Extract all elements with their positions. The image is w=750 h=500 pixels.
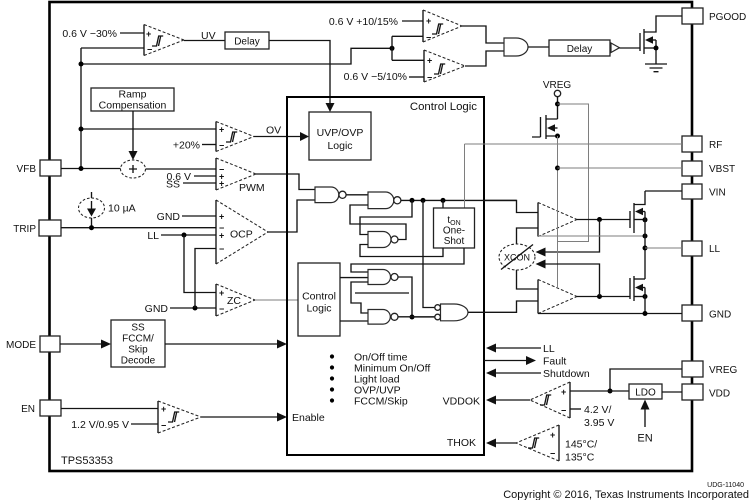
gate AND G [435, 304, 468, 321]
svg-text:Enable: Enable [292, 412, 325, 424]
label 1.2V/0.95V [71, 419, 158, 431]
svg-text:LDO: LDO [635, 388, 656, 399]
comparator OCP [216, 200, 268, 264]
wire EN pin to EN comparator [61, 408, 158, 410]
node dot LL pin [643, 246, 648, 251]
svg-text:UVP/OVP: UVP/OVP [317, 127, 364, 139]
arrow EN into LDO [637, 400, 652, 445]
pin TRIP [13, 220, 61, 236]
svg-text:FCCM/Skip: FCCM/Skip [354, 396, 408, 408]
label UDG-11040 [707, 482, 744, 489]
label 145C/135C [565, 439, 597, 464]
wire delay1 to UVP/OVP logic [269, 41, 335, 113]
svg-text:Skip: Skip [128, 345, 148, 356]
svg-text:135°C: 135°C [565, 452, 595, 464]
transistor HS fet Q3 [630, 191, 648, 233]
pin VREG [682, 361, 738, 377]
wire inner box to nandF [340, 320, 368, 322]
wire OVP comp to AND [462, 26, 504, 43]
comparator OV [216, 122, 254, 152]
wire 0.6V-30% to UV plus [120, 32, 144, 34]
comparator UV [144, 25, 184, 56]
node junction x81 y64 [79, 62, 84, 67]
wire inner box to nandD [340, 277, 368, 279]
wire TRIP to OCP minus [61, 225, 216, 230]
node dot VBST [555, 166, 560, 171]
svg-text:+: + [426, 16, 431, 26]
wire LDO to VDD pin [662, 391, 682, 393]
wire F out to AND G [398, 316, 435, 318]
wire UVP comp to AND [465, 51, 504, 66]
label OCP [230, 229, 253, 241]
wire GND rail [538, 311, 682, 316]
wire ramp to summing node [129, 111, 138, 160]
block control logic inner [298, 263, 340, 336]
wire HS out to XCON arrow [536, 220, 600, 257]
wire summing node to PWM minus [146, 168, 217, 170]
wire to UVP comp plus [392, 59, 424, 61]
delay block D2 [549, 40, 610, 56]
label LL left [147, 230, 216, 242]
wire VBST to pin [558, 167, 683, 169]
wire LL to ZC plus [184, 235, 216, 293]
wire RF into tON [464, 144, 466, 208]
pin GND [682, 305, 731, 321]
svg-text:Delay: Delay [234, 37, 260, 48]
wire VBST rail overlay [557, 202, 559, 288]
svg-text:Delay: Delay [567, 44, 593, 55]
svg-text:THOK: THOK [447, 437, 476, 449]
pin VFB [17, 160, 61, 176]
pin VIN [682, 184, 726, 199]
svg-text:Logic: Logic [306, 303, 331, 315]
gate NAND A [315, 187, 346, 203]
svg-text:Shot: Shot [444, 236, 465, 247]
wire LS out to XCON arrow [536, 260, 600, 297]
svg-text:−: − [147, 45, 152, 55]
svg-text:PGOOD: PGOOD [709, 12, 746, 23]
svg-text:VDDOK: VDDOK [443, 396, 480, 408]
svg-text:+: + [219, 179, 224, 189]
wire buffer to PGOOD fet gate [620, 47, 641, 49]
svg-text:−: − [219, 141, 224, 151]
pin VDD [682, 384, 730, 400]
svg-text:−: − [219, 244, 224, 254]
current source 10uA [79, 192, 136, 228]
svg-text:VBST: VBST [709, 164, 735, 175]
wire EN comp to control logic enable [201, 413, 287, 422]
block SS FCCM skip decode [111, 320, 165, 367]
pin PGOOD [682, 8, 746, 24]
label 0.6V / SS [166, 171, 216, 191]
label TPS53353 [61, 455, 113, 467]
summing node [121, 160, 146, 178]
svg-text:LL: LL [709, 244, 721, 255]
comparator PWM [216, 158, 256, 190]
label LL arrow [486, 343, 555, 355]
node dot 412 [410, 198, 415, 203]
comparator VDDOK [530, 382, 570, 418]
pin RF [682, 136, 722, 152]
driver LS [538, 280, 577, 314]
label UV [201, 30, 216, 42]
svg-text:+: + [427, 56, 432, 66]
svg-text:VDD: VDD [709, 389, 730, 400]
wire OV to UVP/OVP logic [254, 132, 309, 141]
svg-text:+: + [161, 404, 166, 414]
node dot LDO input [608, 389, 613, 394]
label ZC [227, 295, 241, 307]
wire ZC out to inner control logic [255, 299, 298, 301]
gate NAND B [368, 192, 401, 209]
svg-text:−: − [427, 73, 432, 83]
node VFB bus x81 [80, 48, 82, 169]
svg-text:LL: LL [147, 230, 159, 242]
wire MODE to decode block [60, 340, 111, 349]
wire UV minus feedback [81, 47, 144, 49]
driver HS [538, 203, 577, 237]
svg-text:MODE: MODE [6, 340, 36, 351]
svg-text:−: − [561, 406, 566, 416]
wire node to LDO [610, 390, 629, 392]
wire latch B out to C in [360, 200, 412, 234]
svg-text:+: + [550, 430, 555, 440]
svg-text:RF: RF [709, 140, 722, 151]
node dot VREG branch [555, 102, 560, 107]
block tON one-shot [434, 208, 475, 248]
wire B bus down to AND G [423, 200, 435, 307]
svg-text:Shutdown: Shutdown [543, 368, 590, 380]
wire HS driver LL reference [538, 235, 645, 237]
label THOK arrow [447, 437, 516, 449]
wire decode to control logic [165, 340, 287, 349]
svg-text:3.95 V: 3.95 V [584, 417, 614, 429]
wire VBST rail down to LS driver [557, 136, 559, 288]
wire latch C out to B in [350, 205, 406, 240]
label 4.2V/3.95V [570, 404, 614, 429]
wire HS gate line [577, 217, 630, 222]
label PWM [239, 182, 265, 194]
svg-text:1.2 V/0.95 V: 1.2 V/0.95 V [71, 419, 129, 431]
transistor boost switch Q2 [532, 115, 560, 139]
gate NAND D [368, 270, 398, 285]
wire LL to pin [645, 247, 682, 249]
svg-text:One-: One- [443, 226, 465, 237]
wire XCON to HS driver [517, 228, 539, 245]
svg-text:+20%: +20% [173, 140, 200, 152]
node dot 423 [421, 198, 426, 203]
transistor LS fet Q4 [630, 276, 648, 314]
block XCON [499, 244, 535, 270]
svg-text:TRIP: TRIP [13, 224, 36, 235]
wire LL rail [644, 212, 646, 280]
bullet list [330, 352, 430, 408]
wire LS gate line [577, 294, 630, 299]
svg-text:UDG-11040: UDG-11040 [707, 482, 744, 489]
svg-text:GND: GND [157, 211, 181, 223]
svg-text:0.6 V −30%: 0.6 V −30% [62, 28, 117, 40]
svg-text:FCCM/: FCCM/ [122, 334, 154, 345]
wire XCON to LS driver [517, 270, 539, 290]
svg-text:LL: LL [543, 343, 555, 355]
wire latch D third input [351, 282, 368, 313]
svg-text:−: − [161, 421, 166, 431]
wire latch cross mid [355, 292, 409, 294]
label copyright [503, 489, 749, 500]
svg-text:+: + [219, 125, 224, 135]
wire VFB sense to OVP/UVP comparators [81, 48, 392, 64]
label GND upper [157, 211, 216, 223]
block control logic outer [287, 97, 484, 455]
wire VREG pin to LDO node [610, 369, 682, 391]
svg-text:TPS53353: TPS53353 [61, 455, 113, 467]
wire VFB bus to OV comp plus [79, 127, 217, 132]
transistor PGOOD pulldown [640, 16, 682, 64]
svg-text:−: − [219, 304, 224, 314]
svg-text:ZC: ZC [227, 295, 241, 307]
terminal VREG top [543, 80, 572, 119]
comparator ZC [216, 284, 255, 316]
svg-text:EN: EN [637, 433, 652, 445]
block UVP/OVP logic [309, 112, 371, 160]
svg-text:−: − [426, 33, 431, 43]
wire UV out to delay [184, 40, 225, 42]
label Fault arrow [484, 356, 566, 368]
pin MODE [6, 336, 60, 352]
wire tON out to nandC lower input [360, 245, 443, 257]
gate NAND C [368, 232, 398, 248]
svg-text:Compensation: Compensation [99, 100, 167, 112]
svg-text:PWM: PWM [239, 182, 265, 194]
wire nandB output bus y200 [401, 199, 517, 201]
comparator THOK [516, 425, 559, 461]
wire HS driver input [484, 200, 538, 212]
wire VREG branch right [558, 104, 589, 242]
node dot F out [410, 315, 415, 320]
svg-text:−: − [550, 449, 555, 459]
label Shutdown arrow [486, 368, 590, 380]
label Enable [292, 412, 325, 424]
label +20% [173, 140, 216, 152]
wire VIN pin [645, 190, 682, 192]
svg-text:VREG: VREG [543, 80, 572, 91]
gate NAND F [368, 310, 398, 325]
svg-text:OCP: OCP [230, 229, 253, 241]
node dot 443 [441, 198, 446, 203]
svg-text:4.2 V/: 4.2 V/ [584, 404, 612, 416]
wire GND to OCP lower minus [195, 249, 216, 309]
block LDO [629, 384, 662, 399]
wire G out to LS driver [468, 301, 538, 312]
wire VFB pin to summing node [61, 166, 121, 171]
svg-text:Copyright © 2016, Texas Instru: Copyright © 2016, Texas Instruments Inco… [503, 489, 749, 500]
svg-text:EN: EN [21, 404, 35, 415]
svg-text:145°C/: 145°C/ [565, 439, 597, 451]
pin LL [682, 241, 721, 256]
svg-text:+: + [146, 29, 151, 39]
ground symbol [645, 64, 667, 72]
label OV [266, 125, 281, 137]
svg-text:+: + [219, 231, 224, 241]
svg-text:VREG: VREG [709, 365, 738, 376]
svg-text:SS: SS [166, 179, 180, 191]
svg-text:XCON: XCON [504, 253, 530, 263]
node dot LL ref [643, 234, 648, 239]
pin EN [21, 400, 61, 416]
label VDDOK arrow [443, 396, 530, 408]
wire VDDOK comp plus [570, 390, 610, 392]
svg-text:Control Logic: Control Logic [410, 101, 477, 113]
svg-text:GND: GND [145, 303, 169, 315]
pin VBST [682, 161, 735, 176]
svg-text:10 µA: 10 µA [108, 203, 136, 215]
ramp compensation block [91, 88, 174, 112]
svg-text:SS: SS [131, 323, 145, 334]
svg-text:+: + [561, 387, 566, 397]
svg-text:GND: GND [709, 310, 731, 321]
delay block D1 [225, 32, 269, 49]
label 0.6V+10/15% [329, 16, 423, 28]
label GND lower [145, 303, 216, 315]
wire nandD out to F out node [398, 277, 412, 317]
svg-text:OV: OV [266, 125, 281, 137]
svg-text:Logic: Logic [327, 140, 352, 152]
svg-text:VIN: VIN [709, 188, 726, 199]
wire RF to pin [465, 143, 683, 145]
comparator UVP 0.6V-5/10% [424, 50, 465, 83]
svg-text:+: + [219, 212, 224, 222]
svg-text:0.6 V −5/10%: 0.6 V −5/10% [344, 71, 407, 83]
svg-text:Control: Control [302, 291, 336, 303]
buffer after delay2 [611, 43, 620, 53]
wire OCP out to nand A [268, 200, 315, 232]
comparator EN [158, 401, 201, 433]
wire AND to delay2 [528, 46, 549, 48]
wire PWM out to nand A [256, 174, 315, 190]
node junction x392 y48 [390, 36, 395, 60]
label 0.6V-5/10% [344, 71, 424, 83]
svg-text:VFB: VFB [17, 164, 37, 175]
wire tON out2 to nandD [351, 248, 464, 272]
gate AND PGOOD [504, 38, 528, 56]
wire to OVP comp minus [392, 35, 423, 37]
wire tON trigger stub [442, 200, 444, 208]
wire nandA to nandB [346, 194, 368, 197]
svg-text:+: + [219, 288, 224, 298]
svg-text:Decode: Decode [121, 356, 156, 367]
comparator OVP 0.6V+10/15% [423, 10, 462, 43]
svg-text:Fault: Fault [543, 356, 566, 368]
svg-text:0.6 V +10/15%: 0.6 V +10/15% [329, 16, 398, 28]
label 0.6V-30% [62, 28, 117, 40]
